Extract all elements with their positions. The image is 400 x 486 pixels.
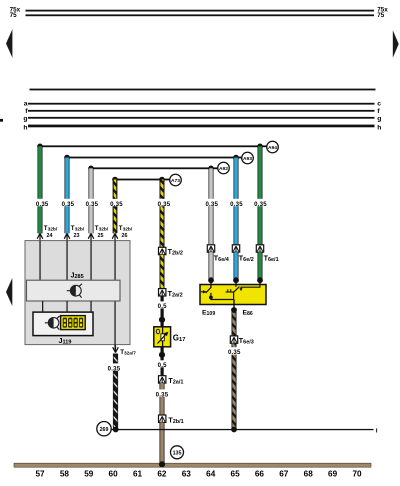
value 0.5	[157, 301, 169, 310]
svg-text:E109: E109	[202, 310, 215, 318]
wire inside J285 pin24	[39, 241, 40, 281]
connector arrow T32b/24	[37, 233, 43, 240]
wire bar to J119 pin a	[42, 301, 43, 312]
svg-text:0.35: 0.35	[156, 391, 169, 398]
svg-text:E86: E86	[243, 310, 253, 318]
label g right	[377, 115, 381, 122]
grid number 67	[279, 470, 289, 479]
svg-text:68: 68	[304, 470, 314, 479]
pin label T2b/2	[168, 248, 183, 256]
wire blue to T6e/2	[234, 158, 239, 246]
value 0.35 on blue wire	[60, 199, 75, 208]
svg-text:0.35: 0.35	[228, 349, 241, 356]
svg-text:75: 75	[10, 12, 18, 19]
connector T6e/3	[230, 336, 237, 343]
svg-text:63: 63	[182, 470, 192, 479]
svg-text:g: g	[23, 115, 27, 122]
svg-text:0.35: 0.35	[205, 201, 218, 208]
switch E109 contacts	[201, 285, 234, 300]
svg-text:64: 64	[206, 470, 216, 479]
junction blue wire line2	[233, 155, 239, 161]
label E86	[243, 310, 253, 318]
svg-text:h: h	[377, 125, 381, 132]
junction yellow wire line4	[159, 177, 165, 183]
node a (left) / c (right) bus line	[28, 103, 375, 105]
node A92	[218, 162, 230, 174]
value 0.35 on yellow wire 1	[109, 199, 124, 208]
junction left end line3	[88, 166, 94, 172]
svg-text:67: 67	[279, 470, 289, 479]
wire inside J285 pin25	[90, 241, 91, 281]
junction left end line2	[64, 155, 70, 161]
label f left	[25, 108, 28, 115]
value 0.35 on grey wire right	[204, 199, 219, 208]
pin label T6e/3	[239, 337, 254, 346]
pin T32b/24	[44, 225, 58, 239]
grid number 58	[60, 470, 70, 479]
svg-text:57: 57	[35, 470, 45, 479]
wire yellow/black T2b/2 to T2a/2	[160, 255, 165, 289]
grid number 62	[157, 470, 167, 479]
junction blue wire above E-box	[233, 277, 239, 283]
label 75 right	[377, 12, 385, 19]
svg-text:75: 75	[377, 12, 385, 19]
label J119	[59, 336, 72, 346]
wire black T2a/2 to G17	[161, 296, 164, 327]
wire into E-box pin2	[235, 280, 236, 285]
svg-text:59: 59	[84, 470, 94, 479]
label c	[377, 100, 381, 107]
value 0.35	[154, 389, 169, 398]
wire brown/black E-box to T6e/3	[232, 308, 237, 336]
connector arrow T32b/25	[88, 233, 94, 240]
wire brown T2b/1 to ground bus	[160, 422, 165, 464]
pin T32b/26	[119, 225, 133, 239]
svg-text:61: 61	[133, 470, 143, 479]
svg-text:24: 24	[47, 233, 53, 239]
junction above G17	[159, 317, 165, 323]
svg-text:g: g	[377, 115, 381, 122]
sender G17 box	[154, 327, 171, 347]
wire terminal 75 bus line	[26, 14, 375, 16]
svg-text:25: 25	[98, 233, 104, 239]
node A73	[170, 174, 182, 186]
svg-text:66: 66	[255, 470, 265, 479]
connector arrow T32a/7	[113, 345, 119, 353]
label J285	[71, 271, 84, 281]
connector T6e/4	[207, 245, 214, 252]
control unit J285 box	[25, 241, 130, 345]
connector T2b/1	[159, 415, 166, 422]
svg-text:i: i	[376, 427, 378, 434]
connector T6e/2	[232, 245, 239, 252]
value 0.35 on green wire right	[253, 199, 268, 208]
continuation arrow middle left	[6, 278, 12, 306]
label h right	[377, 125, 381, 132]
wire grey to T32b/25	[89, 168, 94, 233]
grid number 65	[231, 470, 241, 479]
label i	[376, 427, 378, 434]
connector T2b/2	[159, 247, 166, 254]
junction left end line1	[37, 144, 43, 150]
node 269	[97, 422, 111, 436]
junction wire to ground bus	[159, 461, 165, 467]
svg-text:0.35: 0.35	[108, 365, 121, 372]
wire inside J285 pin26 upper	[114, 241, 115, 281]
svg-text:0.35: 0.35	[62, 201, 75, 208]
display unit J119 box	[33, 312, 93, 336]
wire internal connection i	[111, 429, 373, 430]
svg-text:70: 70	[352, 470, 362, 479]
node f bus line	[28, 110, 375, 112]
label f right	[377, 108, 380, 115]
wire grey to T6e/4	[209, 168, 214, 245]
svg-text:23: 23	[74, 233, 80, 239]
pin label T6e/4	[214, 253, 232, 263]
wire E-box output stub	[233, 300, 234, 311]
wire internal connection line (unlabelled)	[30, 89, 376, 91]
label a	[24, 100, 28, 107]
pin label T6e/2	[239, 253, 257, 263]
wire into E-box pin1	[210, 280, 211, 285]
svg-text:A94: A94	[268, 145, 277, 151]
value 0.35 on grey wire	[84, 199, 99, 208]
value 0.35 on green wire	[35, 199, 50, 208]
instrument insert bar inside J285	[27, 280, 121, 301]
svg-text:0.5: 0.5	[158, 303, 167, 310]
wire inside J285 pin26 lower to T32a/7	[114, 301, 115, 350]
svg-text:62: 62	[157, 470, 167, 479]
grid number 70	[352, 470, 362, 479]
pin label T6e/1	[264, 253, 282, 263]
connector T2a/2	[159, 289, 166, 296]
wire green to T32b/24	[38, 146, 43, 233]
value 0.35 on yellow wire 2	[156, 199, 171, 208]
svg-text:A93: A93	[243, 156, 252, 162]
wire bus to A94	[40, 145, 267, 147]
pin label T2a/2	[168, 290, 183, 299]
pin T32b/25	[95, 225, 109, 239]
grid number 69	[328, 470, 338, 479]
ground bus bar	[14, 463, 371, 467]
junction green wire line1	[257, 144, 263, 150]
label 75x left	[10, 6, 21, 13]
pin label T2a/1	[168, 377, 183, 386]
continuation arrow top left	[6, 29, 12, 58]
value 0.35 on blue wire right	[229, 199, 244, 208]
svg-text:0.35: 0.35	[36, 201, 49, 208]
value 0.35 on brown/black wire	[227, 347, 242, 356]
wire bus to A93	[67, 157, 242, 159]
node g bus line	[28, 117, 375, 119]
label G17	[173, 334, 186, 343]
wire brown/black T6e/3 to node i line	[232, 343, 237, 430]
label 75 left	[10, 12, 18, 19]
svg-text:60: 60	[109, 470, 119, 479]
svg-text:A92: A92	[219, 166, 228, 172]
node A94	[267, 141, 279, 153]
pin label T2b/1	[168, 416, 183, 425]
svg-text:h: h	[23, 125, 27, 132]
svg-text:c: c	[377, 100, 381, 107]
junction below G17	[159, 352, 165, 358]
label h left	[23, 125, 27, 132]
svg-text:135: 135	[173, 450, 182, 456]
junction brown/black wire on line i	[231, 427, 237, 433]
wire bar to J119 pin b	[66, 301, 67, 312]
svg-text:0.5: 0.5	[158, 362, 167, 369]
svg-text:26: 26	[122, 233, 128, 239]
wire bar to J119 pin c	[90, 301, 91, 312]
grid number 61	[133, 470, 143, 479]
svg-text:A73: A73	[171, 178, 180, 184]
switch unit E109 / E86 box	[200, 285, 266, 305]
gauge icon in bar	[67, 284, 82, 298]
page edge tick mark	[0, 119, 3, 122]
label E109	[202, 310, 215, 318]
grid number 68	[304, 470, 314, 479]
svg-text:65: 65	[231, 470, 241, 479]
svg-text:0.35: 0.35	[110, 201, 123, 208]
wire green T6e/1 to E-box	[258, 252, 263, 280]
wire bus to A92	[91, 167, 218, 169]
svg-text:58: 58	[60, 470, 70, 479]
pin T32b/23	[71, 225, 85, 239]
value 0.5 below G17	[157, 360, 169, 369]
connector T2a/1	[159, 376, 166, 383]
wire brown T2a/1 to T2b/1	[160, 383, 165, 415]
wire blue T6e/2 to E-box	[234, 252, 239, 280]
svg-text:0.35: 0.35	[254, 201, 267, 208]
junction grey wire line3	[208, 166, 214, 172]
node h bus line	[28, 125, 375, 128]
junction black/white wire on line i	[113, 427, 119, 433]
wire into E-box pin3	[259, 280, 260, 285]
digital display in J119	[61, 316, 86, 330]
node A93	[242, 152, 254, 164]
svg-text:69: 69	[328, 470, 338, 479]
svg-text:269: 269	[100, 427, 109, 433]
label 75x right	[377, 6, 388, 13]
junction left end line4	[112, 177, 118, 183]
wire inside J285 pin23	[66, 241, 67, 281]
value 0.35 on black/white wire	[106, 363, 121, 372]
node 135	[171, 446, 184, 459]
svg-text:a: a	[24, 100, 28, 107]
grid number 59	[84, 470, 94, 479]
wire blue to T32b/23	[65, 158, 70, 234]
connector arrow T32b/23	[64, 233, 70, 240]
wire black/white T32a/7 to node 269	[113, 354, 118, 430]
gauge icon in J119	[45, 316, 60, 330]
svg-text:0.35: 0.35	[158, 201, 171, 208]
label g left	[23, 115, 27, 122]
junction grey wire above E-box	[208, 277, 214, 283]
wire grey T6e/4 to E-box	[209, 252, 214, 280]
svg-text:0.35: 0.35	[230, 201, 243, 208]
wire bus to A73	[115, 179, 170, 181]
wire yellow/black to T32b/26	[113, 180, 118, 234]
grid number 60	[109, 470, 119, 479]
wire black G17 to T2a/1	[161, 347, 164, 376]
wire green to T6e/1	[258, 146, 263, 245]
junction below E-box	[231, 307, 237, 313]
wire terminal 75x top bus line	[26, 10, 375, 12]
continuation arrow top right	[393, 30, 399, 58]
grid number 63	[182, 470, 192, 479]
wire yellow/black to T2b/2	[160, 180, 165, 248]
pin T32a/7	[120, 349, 136, 357]
grid number 57	[35, 470, 45, 479]
junction green wire above E-box	[257, 277, 263, 283]
switch E86 contacts	[226, 285, 260, 293]
grid number 66	[255, 470, 265, 479]
connector T6e/1	[256, 245, 263, 252]
connector arrow T32b/26	[112, 233, 118, 240]
svg-text:0.35: 0.35	[86, 201, 99, 208]
grid number 64	[206, 470, 216, 479]
